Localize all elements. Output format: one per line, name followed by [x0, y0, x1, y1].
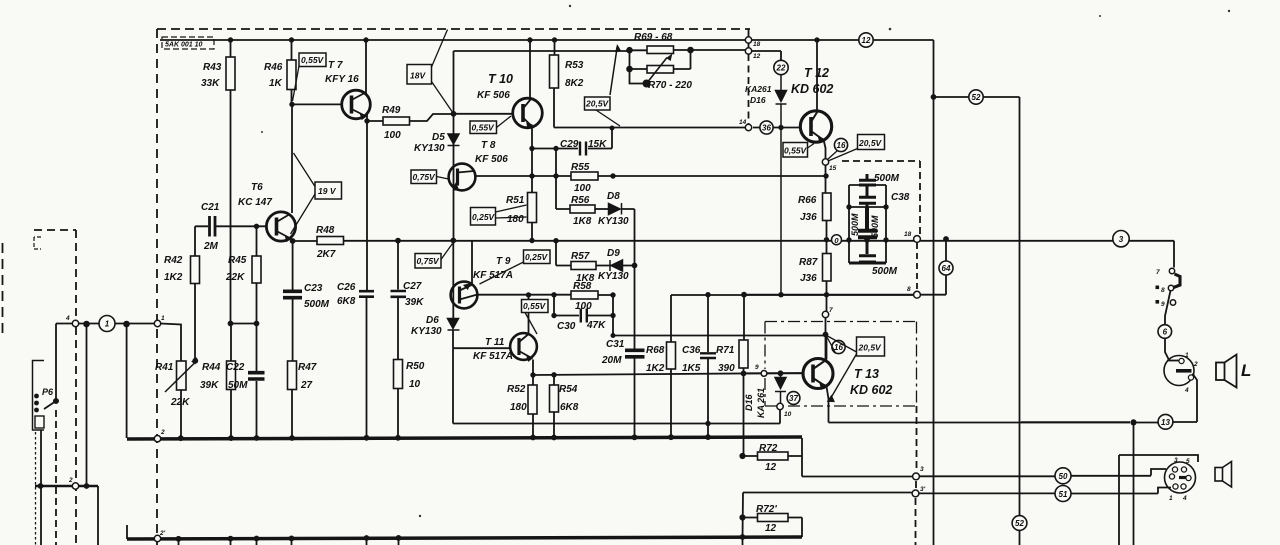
svg-text:2: 2	[68, 477, 73, 484]
svg-text:3: 3	[1119, 235, 1124, 244]
resistor R52	[528, 385, 537, 414]
wire R47 C23 column	[291, 241, 294, 438]
svg-text:5: 5	[1186, 458, 1190, 465]
svg-text:0,25V: 0,25V	[525, 252, 549, 262]
DIN lower pins	[1169, 467, 1191, 489]
diode D8	[609, 203, 622, 215]
resistor R46	[287, 60, 296, 90]
connector P6 lower contact	[35, 416, 44, 428]
wire R49	[367, 114, 454, 121]
svg-text:7: 7	[829, 307, 833, 314]
wire R71 column	[743, 295, 745, 539]
svg-text:50: 50	[1059, 472, 1068, 481]
dashed C38 box	[842, 161, 920, 235]
svg-text:P6: P6	[42, 387, 54, 397]
svg-text:1: 1	[1169, 495, 1173, 502]
svg-text:500M: 500M	[874, 173, 900, 184]
svg-text:C23: C23	[304, 283, 323, 294]
svg-text:C38: C38	[891, 192, 910, 203]
svg-text:12: 12	[753, 53, 761, 60]
svg-text:R43: R43	[203, 62, 222, 73]
wire T13 emitter corner	[827, 387, 829, 423]
dashed link node18b-node8	[916, 243, 918, 291]
svg-text:R42: R42	[164, 255, 183, 266]
capacitor C38b	[859, 186, 876, 207]
svg-text:12: 12	[765, 523, 777, 534]
resistor R72'	[758, 514, 789, 522]
wire T11 base line	[453, 347, 510, 349]
svg-text:C31: C31	[606, 339, 625, 350]
capacitor C36	[700, 353, 716, 358]
capacitor C31	[625, 350, 645, 357]
capacitor C22	[248, 373, 265, 379]
diode D16 output	[775, 373, 786, 404]
wire R56 to D8	[595, 208, 608, 210]
svg-text:18: 18	[904, 231, 912, 238]
svg-text:51: 51	[1059, 490, 1068, 499]
svg-text:KY130: KY130	[598, 216, 629, 227]
svg-text:22K: 22K	[225, 272, 245, 283]
svg-text:T 11: T 11	[485, 337, 505, 348]
svg-text:1K2: 1K2	[164, 272, 183, 283]
wire junction down to lower connector	[1133, 423, 1135, 545]
voltage box texts	[301, 55, 883, 353]
resistor R66	[823, 193, 832, 221]
svg-text:1K2: 1K2	[646, 363, 665, 374]
svg-text:18: 18	[753, 41, 761, 48]
voltage callout boxes	[299, 53, 885, 356]
svg-text:R58: R58	[573, 281, 592, 292]
wire C31 column	[634, 359, 636, 439]
resistor R58	[571, 291, 598, 299]
diode D6	[448, 319, 460, 331]
wire driver collector line	[613, 335, 826, 337]
svg-text:C36: C36	[682, 345, 701, 356]
wire R42 column	[194, 226, 196, 361]
DIN lower pin2 bar	[1179, 476, 1191, 479]
wire R45 column	[256, 226, 258, 323]
wire input node line	[56, 324, 181, 362]
capacitor C38a	[859, 174, 876, 185]
svg-text:52: 52	[1015, 519, 1024, 528]
svg-text:1: 1	[105, 320, 110, 329]
wire circle13 line	[1021, 421, 1130, 423]
wire output mid line	[671, 294, 917, 296]
svg-text:R47: R47	[298, 362, 317, 373]
capacitor C29	[580, 142, 586, 156]
svg-text:KF 506: KF 506	[477, 90, 510, 101]
C38 block right rail	[885, 185, 887, 263]
resistor R44	[227, 361, 236, 390]
wire node10 down corner	[779, 410, 781, 424]
wire C22 column	[256, 324, 258, 439]
svg-text:3: 3	[920, 466, 924, 473]
resistor R47	[288, 361, 297, 390]
svg-text:R70 - 220: R70 - 220	[648, 80, 692, 91]
wire feedback top line	[454, 50, 630, 52]
ground rail upper	[127, 437, 802, 439]
DIN connector lower circle	[1165, 462, 1196, 493]
diode D16a KA261	[776, 75, 787, 295]
wire x556 link	[556, 149, 570, 210]
transistor name labels	[238, 60, 892, 397]
transistor T8	[449, 164, 476, 191]
heatsink dash-dot box	[765, 322, 917, 407]
wire T12 collector	[816, 40, 818, 111]
rail lower left upturn	[126, 525, 128, 539]
svg-text:C30: C30	[557, 321, 576, 332]
svg-text:5AK 001 10: 5AK 001 10	[165, 42, 202, 49]
rail lower stubs	[179, 537, 743, 545]
svg-text:R57: R57	[571, 251, 590, 262]
resistor R69	[647, 46, 674, 54]
svg-text:2K7: 2K7	[316, 249, 336, 260]
svg-text:D16: D16	[744, 393, 754, 411]
svg-text:T 13: T 13	[854, 367, 879, 381]
type label box 5AK00110	[162, 37, 214, 49]
svg-text:0,25V: 0,25V	[472, 212, 496, 222]
C38 top link	[849, 184, 886, 186]
wire R69 line upper	[630, 49, 746, 51]
svg-text:KC 147: KC 147	[238, 197, 272, 208]
svg-text:J36: J36	[800, 212, 817, 223]
svg-text:KY130: KY130	[414, 143, 445, 154]
svg-text:52: 52	[972, 93, 981, 102]
svg-text:KD 602: KD 602	[791, 82, 833, 96]
svg-text:R41: R41	[155, 362, 174, 373]
svg-text:6K8: 6K8	[560, 402, 579, 413]
wire node3 line	[802, 469, 1166, 477]
wire switch to circle6	[1165, 291, 1171, 326]
dashed stub left small box	[34, 230, 76, 320]
wire C21 input	[195, 225, 266, 227]
resistor R57	[571, 262, 596, 270]
circled node numbers	[99, 33, 1173, 531]
wire right outer vertical	[1019, 97, 1021, 545]
svg-text:12: 12	[862, 36, 871, 45]
node 0 circle	[832, 235, 842, 245]
scan specks	[261, 5, 1230, 517]
svg-text:R49: R49	[382, 105, 401, 116]
wire T11 emitter line	[533, 360, 803, 376]
resistor R54	[550, 385, 559, 412]
svg-text:R45: R45	[228, 255, 247, 266]
ground rail lower	[127, 537, 802, 539]
svg-text:8: 8	[907, 286, 911, 293]
dashed heatsink to node3	[916, 406, 917, 545]
svg-text:33K: 33K	[201, 78, 220, 89]
wire C36 column	[707, 295, 709, 438]
wire feedback lower line	[453, 348, 780, 423]
transistor T11	[510, 333, 537, 362]
svg-text:8K2: 8K2	[565, 78, 584, 89]
DIN L pins	[1179, 358, 1194, 380]
wire T9 base column	[452, 241, 454, 349]
svg-text:R55: R55	[571, 162, 590, 173]
svg-text:KFY 16: KFY 16	[325, 74, 359, 85]
svg-text:2': 2'	[159, 530, 166, 537]
trimmer R70 wiper	[647, 58, 668, 84]
wire node18 to circle12 to right corner	[752, 39, 934, 41]
svg-text:6K8: 6K8	[337, 296, 356, 307]
svg-text:20,5V: 20,5V	[585, 99, 610, 109]
resistor R43	[226, 57, 235, 90]
svg-text:9: 9	[1161, 301, 1165, 308]
wire vertical x41 lower	[40, 430, 42, 545]
svg-text:0,55V: 0,55V	[301, 55, 325, 65]
svg-text:C29: C29	[560, 139, 579, 150]
trimmer R70 body	[647, 66, 674, 74]
wire T10 collector	[529, 40, 531, 98]
select arrow R69-68	[610, 47, 617, 95]
wire T12 emitter to node15	[824, 140, 826, 160]
svg-text:27: 27	[300, 380, 313, 391]
transistor T6	[266, 212, 295, 242]
resistor R87	[823, 254, 832, 282]
wire C27 R50 column	[397, 241, 399, 439]
svg-text:20,5V: 20,5V	[858, 343, 883, 353]
wire node12 to D16a branch	[752, 51, 782, 61]
wire T12 base line	[753, 127, 800, 129]
svg-text:13: 13	[1161, 418, 1170, 427]
svg-text:L: L	[1241, 361, 1251, 380]
module border dashed top	[157, 28, 750, 30]
wire R46 column	[291, 40, 293, 104]
svg-text:22: 22	[776, 64, 786, 73]
svg-text:1: 1	[1185, 352, 1189, 359]
svg-text:R53: R53	[565, 60, 584, 71]
diode D9	[610, 260, 623, 271]
dashed bracket left margin	[34, 237, 41, 249]
wire T9 emitter up lead	[471, 241, 473, 284]
switch NC contact squares	[1156, 286, 1160, 304]
svg-text:T6: T6	[251, 182, 263, 193]
DIN connector L circle	[1164, 356, 1194, 386]
svg-text:10: 10	[784, 411, 792, 418]
svg-text:R72': R72'	[756, 504, 777, 515]
svg-text:T 12: T 12	[804, 66, 829, 80]
svg-text:6: 6	[1163, 328, 1168, 337]
capacitor C27	[391, 291, 407, 297]
svg-text:KF 517A: KF 517A	[473, 270, 513, 281]
svg-text:18V: 18V	[410, 71, 426, 81]
svg-text:KY130: KY130	[411, 326, 442, 337]
svg-text:0,75V: 0,75V	[413, 172, 437, 182]
dashed border node12 to node14	[748, 54, 750, 124]
svg-text:10: 10	[409, 379, 421, 390]
resistor R53	[550, 55, 559, 88]
capacitor C21	[210, 216, 216, 237]
capacitor C30	[581, 309, 587, 323]
transistor T12	[800, 111, 831, 143]
wire lower-left node2 line	[35, 485, 98, 488]
wire output node8 line	[744, 239, 947, 295]
dashed line below node4	[75, 327, 77, 545]
svg-text:R51: R51	[506, 195, 525, 206]
transistor T9	[451, 282, 478, 309]
connector P6 outline	[33, 361, 45, 431]
svg-text:R48: R48	[316, 225, 335, 236]
wire T9 emitter output line	[477, 294, 571, 296]
svg-text:100: 100	[384, 130, 401, 141]
dashed module edge far left	[2, 243, 4, 335]
potentiometer R41 body	[177, 361, 187, 390]
resistor R71	[739, 340, 748, 368]
svg-text:1K8: 1K8	[573, 216, 592, 227]
svg-text:15: 15	[829, 165, 837, 172]
svg-text:50M: 50M	[228, 380, 248, 391]
diode D5	[448, 134, 460, 146]
svg-text:C22: C22	[226, 362, 245, 373]
wire vertical from dot86	[86, 324, 88, 486]
wire P6 diagonal	[44, 401, 56, 409]
svg-text:R87: R87	[799, 257, 818, 268]
resistor R49	[383, 117, 410, 125]
switch contact 7	[1174, 274, 1181, 288]
svg-text:20,5V: 20,5V	[858, 138, 883, 148]
speaker L icon	[1216, 355, 1237, 388]
svg-text:2M: 2M	[203, 241, 219, 252]
wire R54 column	[553, 375, 555, 438]
svg-text:390: 390	[718, 363, 735, 374]
wire C29 branch	[532, 128, 612, 149]
wire T7 base	[292, 103, 342, 105]
resistor R56	[570, 205, 595, 213]
svg-text:39K: 39K	[200, 380, 219, 391]
dotted pin column P6 lower	[35, 432, 37, 545]
white node circles	[72, 37, 1175, 542]
svg-text:64: 64	[942, 264, 951, 273]
svg-text:100: 100	[575, 301, 592, 312]
resistor R72	[758, 452, 789, 460]
svg-text:0,55V: 0,55V	[472, 123, 496, 133]
svg-text:7: 7	[1156, 269, 1160, 276]
circled node number texts	[105, 36, 1171, 528]
svg-text:R69 - 68: R69 - 68	[634, 32, 673, 43]
svg-text:KF 517A: KF 517A	[473, 351, 513, 362]
svg-text:500M: 500M	[304, 299, 330, 310]
wire R68 column	[670, 295, 672, 438]
svg-text:39K: 39K	[405, 297, 424, 308]
svg-text:1K5: 1K5	[682, 363, 701, 374]
resistor R51	[528, 193, 537, 223]
speaker lower icon	[1215, 462, 1232, 488]
svg-text:D8: D8	[607, 191, 620, 202]
dashed vertical x56 lower	[55, 410, 57, 545]
svg-text:4: 4	[1184, 387, 1189, 394]
capacitor C38d	[849, 241, 886, 263]
lower connector box	[1119, 455, 1198, 545]
svg-text:1: 1	[161, 315, 165, 322]
wire T13 collector	[826, 335, 827, 360]
svg-text:14: 14	[739, 119, 747, 126]
svg-text:2: 2	[160, 429, 165, 436]
wire R57 branch	[556, 241, 571, 266]
svg-text:15K: 15K	[588, 139, 607, 150]
svg-text:KA 261: KA 261	[756, 388, 766, 418]
C38 mid link	[849, 206, 886, 208]
svg-text:R54: R54	[559, 384, 578, 395]
wire T8 collector line	[475, 175, 827, 177]
svg-text:C21: C21	[201, 202, 220, 213]
wire node3' line	[743, 488, 1171, 494]
svg-text:9: 9	[755, 364, 759, 371]
svg-text:8: 8	[1161, 287, 1165, 294]
svg-text:D6: D6	[426, 315, 439, 326]
svg-text:R68: R68	[646, 345, 665, 356]
svg-text:180: 180	[510, 402, 527, 413]
DIN L pin2 bar	[1176, 369, 1192, 373]
svg-text:1K: 1K	[269, 78, 283, 89]
svg-text:R52: R52	[507, 384, 526, 395]
svg-text:12: 12	[765, 462, 777, 473]
svg-text:2: 2	[1193, 361, 1198, 368]
wire node15 down R66 R87 column	[826, 165, 827, 360]
resistor R68	[667, 342, 676, 369]
capacitor C23	[283, 291, 302, 297]
wire T13 base line	[744, 372, 804, 374]
svg-text:T 9: T 9	[496, 256, 511, 267]
svg-text:C26: C26	[337, 282, 356, 293]
wire C30 branch	[554, 295, 613, 316]
svg-text:0,55V: 0,55V	[523, 301, 547, 311]
module border dashed left	[156, 29, 158, 545]
wire R69-R70 bracket	[630, 50, 691, 84]
wire right vertical from top rail	[933, 40, 935, 545]
svg-text:3': 3'	[920, 486, 926, 493]
svg-text:500M: 500M	[850, 213, 860, 236]
svg-text:D9: D9	[607, 248, 620, 259]
wire rail to R72 drop	[801, 438, 803, 477]
C38 block left rail	[848, 185, 850, 263]
svg-text:D16: D16	[750, 95, 766, 105]
resistor R50	[394, 360, 403, 389]
transistor T10	[513, 98, 543, 128]
wire R72 loop	[743, 455, 803, 457]
svg-text:C27: C27	[403, 281, 422, 292]
svg-text:36: 36	[762, 124, 771, 133]
top supply rail	[160, 39, 745, 41]
svg-text:4: 4	[65, 315, 70, 322]
resistor R42	[191, 256, 200, 284]
resistor R55	[571, 172, 598, 180]
wire T6 collector	[291, 104, 293, 213]
svg-text:R50: R50	[406, 361, 425, 372]
wire R43 column	[230, 40, 232, 324]
transistor T13	[803, 359, 833, 390]
svg-text:47K: 47K	[586, 320, 606, 331]
wire switch feed	[1168, 241, 1174, 268]
wire input left drop to P6	[55, 324, 57, 402]
svg-text:500M: 500M	[870, 215, 880, 238]
resistor R45	[252, 256, 261, 283]
wire circle6 to DIN	[1165, 338, 1169, 359]
svg-text:KD 602: KD 602	[850, 383, 892, 397]
wire mid bias rail	[293, 240, 1168, 242]
wire T7 collector	[365, 40, 367, 94]
resistor R48	[317, 237, 344, 245]
wire T10 base line	[454, 51, 513, 241]
svg-text:20M: 20M	[601, 355, 622, 366]
wire T7 emitter / C26 column	[366, 115, 369, 439]
wire T10 emitter column R51	[531, 128, 533, 241]
svg-text:R44: R44	[202, 362, 221, 373]
wire R53 column	[554, 40, 746, 128]
svg-text:R56: R56	[571, 195, 590, 206]
transistor T7	[342, 90, 371, 120]
svg-text:D5: D5	[432, 132, 445, 143]
wire R41 bottom	[180, 390, 182, 438]
